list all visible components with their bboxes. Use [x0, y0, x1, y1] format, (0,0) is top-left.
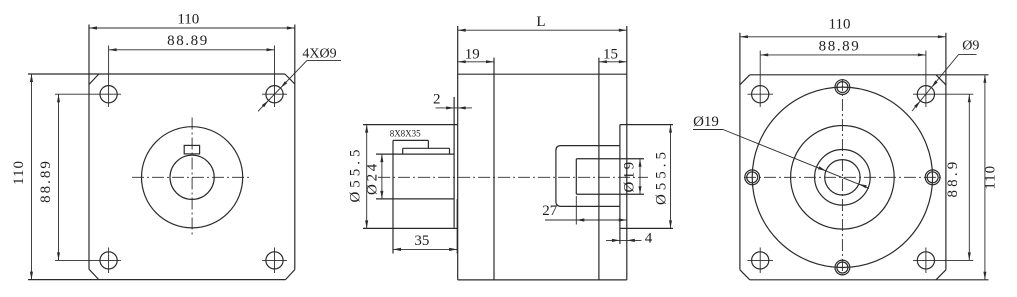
- input plate left edge: [598, 58, 600, 280]
- left view: output flange outline (chamfered square): [28, 73, 285, 75]
- svg-text:4XØ9: 4XØ9: [302, 46, 336, 61]
- svg-text:27: 27: [542, 203, 558, 219]
- bolt hole bottom-left right view: [752, 252, 769, 269]
- input bore D19 bottom line with extension: [576, 193, 644, 195]
- bolt hole top-left right view: [752, 86, 769, 103]
- dimension D55.5 left: [366, 125, 368, 229]
- dimension L top of middle view: [458, 29, 627, 31]
- svg-text:19: 19: [465, 46, 480, 62]
- svg-text:35: 35: [414, 233, 429, 249]
- dimension 2 boss protrusion: [436, 107, 473, 109]
- internal line 19mm from left face: [493, 58, 495, 280]
- middle view: gearbox body left face: [457, 26, 459, 280]
- input bore circle D19: [825, 160, 860, 195]
- middle view body top edge: [458, 73, 627, 75]
- svg-text:88.9: 88.9: [945, 158, 961, 197]
- gearbox round body circle: [752, 87, 932, 267]
- keyway on bore: [184, 145, 199, 154]
- svg-text:Ø55.5: Ø55.5: [348, 145, 364, 202]
- svg-text:15: 15: [603, 46, 618, 62]
- dimension 15: [599, 61, 627, 63]
- dimension D24: [381, 154, 383, 199]
- output shaft D24 top edge with extension: [376, 153, 454, 155]
- svg-text:88.89: 88.89: [167, 33, 209, 49]
- right view: input flange outline (chamfered square): [750, 74, 989, 76]
- output boss face 2mm proud: [453, 97, 455, 228]
- input bore D19 top line with extension: [576, 158, 644, 160]
- recess bottom edge with D55.5 extension right: [620, 227, 673, 229]
- center lines of left view: [132, 176, 252, 178]
- input pilot recess bottom line with 4 dim extension: [619, 125, 621, 244]
- dimension 35 shaft length: [393, 248, 457, 250]
- inner circle D30: [815, 150, 871, 206]
- dimension 4 recess depth: [606, 239, 641, 241]
- svg-text:Ø24: Ø24: [365, 161, 381, 195]
- left view corner chamfer bottom-right: [286, 270, 295, 280]
- middle view centerline: [378, 176, 648, 178]
- dimension 88.89 vertical left: [58, 94, 60, 260]
- right view corner chamfer bottom-right: [936, 270, 946, 280]
- output boss bottom edge with D55.5 extension: [363, 227, 458, 229]
- dimension 27 bore depth: [545, 219, 627, 221]
- tapped hole south double circle: [835, 260, 850, 275]
- dimension 110 vertical right: [984, 75, 986, 280]
- dimension 88.89 horizontal of left view: [109, 49, 275, 51]
- center lines of right view: [744, 176, 941, 178]
- bolt hole bottom-right with crosshair: [266, 252, 283, 269]
- tapped hole east double circle: [925, 170, 940, 185]
- svg-text:110: 110: [829, 16, 851, 32]
- output shaft D24 bottom edge with extension: [376, 198, 454, 200]
- svg-text:88.89: 88.89: [38, 159, 54, 203]
- dimension 88.9 vertical right: [968, 94, 970, 260]
- right view corner chamfer top-right: [936, 75, 946, 85]
- svg-text:110: 110: [177, 12, 199, 28]
- key 8x8x35 lower step: [403, 147, 450, 149]
- right view corner chamfer bottom-left: [740, 270, 750, 280]
- left view corner chamfer top-right: [285, 74, 295, 84]
- bolt hole bottom-left with crosshair: [100, 252, 117, 269]
- bolt hole top-right with crosshair: [266, 86, 283, 103]
- input bore end: [575, 159, 577, 195]
- input plate right face: [626, 26, 628, 280]
- svg-text:L: L: [536, 14, 545, 30]
- dimension 19: [458, 61, 494, 63]
- dimension 110 horizontal top of right view: [740, 36, 946, 38]
- left view corner chamfer bottom-left: [89, 269, 99, 279]
- internal cavity rounded outline: [556, 146, 620, 207]
- pilot recess circle D55.5: [791, 126, 895, 230]
- pilot boss circle D55.5: [142, 127, 243, 228]
- right view corner chamfer top-left: [740, 75, 750, 85]
- bolt hole top-right right view: [917, 86, 934, 103]
- svg-text:88.89: 88.89: [819, 39, 861, 55]
- key 8x8x35 upper step: [393, 139, 428, 141]
- output boss top edge with D55.5 extension: [363, 124, 458, 126]
- svg-text:Ø55.5: Ø55.5: [654, 148, 670, 205]
- bolt hole bottom-right right view: [917, 252, 934, 269]
- dimension 88.89 horizontal of right view: [760, 54, 926, 56]
- dimension D55.5 right: [670, 125, 672, 229]
- svg-text:Ø9: Ø9: [962, 39, 979, 54]
- svg-text:2: 2: [433, 92, 441, 108]
- recess top edge with D55.5 extension right: [620, 124, 673, 126]
- dimension D19 middle: [639, 159, 641, 195]
- svg-text:110: 110: [983, 165, 999, 190]
- left view corner chamfer top-left: [89, 74, 99, 85]
- svg-text:8X8X35: 8X8X35: [390, 128, 421, 138]
- dimension 110 horizontal top of left view: [89, 27, 295, 29]
- shaft bore circle D24: [170, 155, 214, 199]
- svg-text:Ø19: Ø19: [693, 114, 719, 130]
- middle view body bottom edge: [458, 279, 627, 281]
- svg-text:Ø19: Ø19: [622, 159, 638, 192]
- svg-text:4: 4: [645, 231, 653, 247]
- tapped hole west double circle: [745, 170, 760, 185]
- tapped hole north double circle: [835, 80, 850, 95]
- output shaft left end with 35 dim extension: [392, 140, 394, 253]
- dimension 110 vertical left: [31, 74, 33, 280]
- bolt hole top-left with crosshair: [100, 86, 117, 103]
- svg-text:110: 110: [11, 160, 27, 185]
